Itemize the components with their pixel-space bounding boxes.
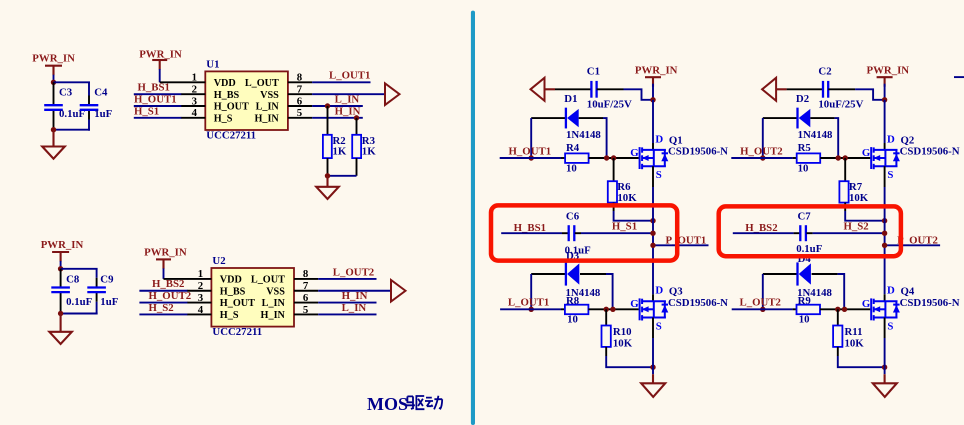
diode D2 (796, 108, 798, 129)
wire (134, 93, 182, 95)
wire (652, 84, 654, 100)
svg-text:VSS: VSS (260, 90, 279, 101)
wire (318, 313, 376, 315)
diode D2 lead (763, 117, 797, 119)
svg-text:Q3: Q3 (669, 286, 683, 298)
svg-text:G: G (862, 147, 871, 159)
power port PWR_IN (U1) bar (152, 59, 167, 61)
svg-text:PWR_IN: PWR_IN (139, 48, 182, 60)
wire (96, 302, 98, 315)
highlight box 1 (491, 205, 677, 260)
svg-text:10K: 10K (849, 192, 869, 204)
capacitor C8 plates (51, 286, 70, 288)
capacitor C4 plates (80, 104, 99, 106)
highlight box 2 (719, 206, 901, 256)
diode D1 (565, 108, 567, 129)
transistor Q3 source arrow (643, 308, 654, 310)
pin 1 lead (164, 278, 212, 280)
transistor Q2 body diode (895, 150, 897, 166)
svg-text:PWR_IN: PWR_IN (867, 65, 910, 77)
transistor Q1 drain link (641, 149, 666, 151)
junction (354, 115, 359, 120)
wire (652, 187, 654, 221)
wire to ground (884, 367, 886, 374)
svg-text:4: 4 (198, 304, 204, 316)
svg-text:10uF/25V: 10uF/25V (587, 99, 632, 111)
junction (51, 80, 56, 85)
wire (884, 187, 886, 221)
svg-text:H_IN: H_IN (254, 113, 279, 124)
wire (134, 105, 182, 107)
wire to ground (652, 367, 654, 374)
transistor Q3 source link (641, 317, 666, 319)
wire (614, 211, 653, 221)
svg-text:D: D (887, 133, 895, 145)
svg-text:C9: C9 (100, 274, 114, 286)
svg-text:UCC27211: UCC27211 (206, 130, 256, 142)
svg-text:H_OUT: H_OUT (220, 298, 255, 309)
wire (134, 117, 182, 119)
stub wire at right edge (954, 76, 964, 78)
resistor R11 bottom lead (837, 347, 839, 356)
transistor Q2 source link (873, 165, 898, 167)
diode D4 (796, 262, 798, 285)
transistor Q4 source arrow (874, 308, 885, 310)
source lead (884, 166, 886, 187)
transistor Q4 body diode (895, 301, 897, 317)
transistor Q3 channel segments (641, 299, 643, 304)
svg-text:L_OUT: L_OUT (251, 275, 285, 286)
resistor R7 body (839, 181, 848, 202)
svg-text:R6: R6 (617, 181, 631, 193)
wire (61, 268, 98, 270)
diode D3 lead (531, 273, 566, 275)
wire (500, 157, 561, 159)
resistor R8 lead (588, 308, 638, 310)
junction (58, 311, 63, 316)
svg-text:R8: R8 (566, 295, 580, 307)
wire (54, 129, 91, 131)
svg-text:G: G (862, 298, 871, 310)
pin 3 lead (187, 302, 212, 304)
junction (835, 307, 840, 312)
svg-text:H_BS1: H_BS1 (514, 222, 546, 234)
svg-text:R10: R10 (613, 326, 632, 338)
pin 2 lead (187, 290, 212, 292)
wire PWR rail (652, 100, 654, 143)
capacitor C9 leads (96, 278, 98, 288)
source lead (652, 318, 654, 339)
wire (884, 84, 886, 100)
pin 5 lead (288, 117, 312, 119)
wire rail (884, 221, 886, 295)
svg-text:10K: 10K (613, 338, 633, 350)
resistor R10 bottom lead (605, 347, 607, 356)
junction (610, 307, 615, 312)
wire (624, 89, 654, 100)
wire (318, 278, 376, 280)
wire (88, 120, 90, 131)
wire (581, 232, 653, 234)
svg-text:G: G (630, 298, 639, 310)
resistor R3 body (352, 135, 361, 158)
source lead (884, 318, 886, 339)
svg-text:H_S2: H_S2 (844, 221, 869, 233)
resistor R2 bottom lead (327, 158, 329, 176)
svg-text:S: S (887, 169, 893, 181)
resistor R7 bottom lead (844, 203, 846, 211)
svg-text:VSS: VSS (266, 286, 285, 297)
wire (312, 81, 370, 83)
junction (51, 127, 56, 132)
transistor Q4 ds bar (884, 301, 886, 317)
svg-text:H_IN: H_IN (342, 290, 368, 302)
resistor R6 body (608, 181, 617, 202)
wire (96, 269, 98, 278)
transistor Q4 gate bar (870, 298, 872, 320)
transistor Q4 source link (873, 317, 898, 319)
svg-text:PWR_IN: PWR_IN (635, 65, 678, 77)
junction (842, 307, 847, 312)
power port PWR_IN (bridge 2) bar (877, 76, 893, 78)
svg-text:U2: U2 (212, 255, 225, 267)
svg-text:Q4: Q4 (901, 286, 915, 298)
junction (650, 231, 655, 236)
svg-text:L_OUT2: L_OUT2 (740, 297, 781, 309)
wire PWR rail (884, 100, 886, 143)
resistor R8 body (565, 305, 589, 315)
wire (88, 82, 90, 95)
transistor Q2 gate bar (870, 147, 872, 169)
drain lead (884, 143, 886, 150)
off-sheet connector (left) (531, 78, 545, 101)
svg-text:D2: D2 (796, 93, 809, 105)
svg-text:1N4148: 1N4148 (798, 129, 833, 141)
wire to ground (52, 130, 54, 147)
svg-text:CSD19506-N: CSD19506-N (668, 297, 728, 309)
wire (530, 274, 532, 309)
svg-text:PWR_IN: PWR_IN (41, 239, 84, 251)
capacitor C7 lead (794, 232, 800, 234)
ground lead (652, 374, 654, 383)
ground (49, 332, 72, 344)
title glyph (CJK) (406, 396, 424, 409)
wire (835, 118, 839, 158)
wire (603, 118, 607, 158)
capacitor C7 plates (799, 225, 801, 241)
svg-text:3: 3 (198, 292, 204, 304)
resistor R2 body (323, 135, 332, 158)
transistor Q1 gate bar (639, 147, 641, 169)
wire (139, 302, 187, 304)
transistor Q3 drain link (641, 300, 666, 302)
op-amp-driver IC U1 body (205, 71, 288, 130)
transistor Q2 source arrow (874, 157, 885, 159)
transistor Q1 ds bar (653, 150, 655, 166)
wire (139, 290, 187, 292)
resistor R2 top lead (327, 106, 329, 135)
resistor R3 bottom lead (356, 158, 358, 176)
transistor Q2 channel segments (873, 147, 875, 152)
svg-text:U1: U1 (206, 59, 219, 71)
svg-text:L_OUT2: L_OUT2 (333, 266, 374, 278)
diode D1 lead (531, 117, 565, 119)
wire (733, 232, 794, 234)
svg-text:PWR_IN: PWR_IN (144, 246, 187, 258)
svg-text:CSD19506-N: CSD19506-N (900, 146, 960, 158)
off-sheet connector (right) (391, 280, 406, 302)
svg-text:R11: R11 (845, 326, 863, 338)
wire (328, 175, 357, 177)
capacitor C3 leads (53, 82, 55, 105)
transistor Q3 gate bar (639, 298, 641, 320)
wire (530, 118, 532, 158)
diode D2 lead (810, 117, 834, 119)
title glyph (CJK) (425, 396, 442, 410)
junction (882, 243, 887, 248)
pin 7 lead (288, 93, 312, 95)
wire (139, 313, 187, 315)
capacitor C6 lead (562, 232, 568, 234)
ground (641, 383, 665, 397)
svg-text:L_OUT1: L_OUT1 (508, 297, 549, 309)
svg-text:H_OUT2: H_OUT2 (740, 145, 783, 157)
wire (60, 261, 62, 267)
svg-text:1: 1 (198, 268, 203, 280)
svg-text:L_OUT1: L_OUT1 (329, 70, 370, 82)
wire (318, 302, 376, 304)
junction (529, 155, 534, 160)
transistor Q2 ds bar (884, 150, 886, 166)
svg-text:10: 10 (567, 314, 578, 326)
svg-text:H_BS2: H_BS2 (152, 278, 184, 290)
svg-text:D: D (655, 285, 663, 297)
junction (611, 155, 616, 160)
capacitor C3 plates (44, 104, 63, 106)
pin 7 lead (294, 290, 318, 292)
wire (731, 157, 792, 159)
svg-text:MOS: MOS (367, 394, 408, 414)
svg-text:2: 2 (198, 280, 203, 292)
svg-text:H_OUT1: H_OUT1 (509, 145, 552, 157)
source lead (652, 166, 654, 187)
svg-text:L_OUT: L_OUT (245, 78, 279, 89)
svg-text:S: S (887, 320, 893, 332)
svg-text:4: 4 (192, 107, 198, 119)
capacitor C7 lead (806, 232, 812, 234)
svg-text:H_BS2: H_BS2 (745, 222, 777, 234)
diode D4 lead (812, 273, 838, 275)
svg-text:H_OUT: H_OUT (214, 102, 249, 113)
resistor R5 lead (793, 157, 797, 159)
wire (732, 308, 793, 310)
svg-text:R7: R7 (849, 181, 863, 193)
svg-text:S: S (656, 169, 662, 181)
off-sheet connector (right) (385, 83, 400, 105)
pin 6 lead (288, 105, 312, 107)
resistor R11 top lead (837, 309, 839, 325)
diode D4 lead (763, 273, 798, 275)
pin 2 lead (181, 93, 206, 95)
svg-text:D: D (887, 285, 895, 297)
svg-text:3: 3 (192, 95, 198, 107)
ground (316, 187, 339, 199)
wire (652, 338, 654, 367)
wire (838, 356, 885, 367)
svg-text:CSD19506-N: CSD19506-N (900, 297, 960, 309)
svg-text:R5: R5 (798, 142, 811, 154)
transistor Q3 ds bar (653, 301, 655, 317)
wire (54, 81, 91, 83)
wire (61, 313, 98, 315)
resistor R9 lead (793, 308, 797, 310)
wire (653, 244, 709, 246)
pin 3 lead (181, 105, 206, 107)
svg-text:H_OUT1: H_OUT1 (134, 93, 177, 105)
resistor R9 lead (820, 308, 870, 310)
resistor R5 lead (820, 157, 870, 159)
transistor Q4 channel segments (873, 299, 875, 304)
pin 1 lead (160, 81, 206, 83)
pin 5 lead (294, 313, 318, 315)
power port PWR_IN (C8/C9 group) bar (52, 251, 69, 253)
wire (597, 88, 624, 90)
wire (606, 274, 613, 309)
svg-text:1K: 1K (333, 146, 347, 158)
power port PWR_IN (bridge 1) bar (645, 76, 661, 78)
resistor R3 top lead (356, 118, 358, 135)
junction (760, 155, 765, 160)
svg-text:C6: C6 (566, 211, 580, 223)
wire (845, 211, 884, 221)
junction (650, 243, 655, 248)
svg-text:1uF: 1uF (94, 108, 112, 120)
resistor R6 bottom lead (613, 203, 615, 211)
wire (838, 274, 845, 309)
svg-text:10K: 10K (845, 338, 865, 350)
drain lead (884, 294, 886, 301)
svg-text:VDD: VDD (220, 275, 242, 286)
wire (762, 118, 764, 158)
svg-text:C3: C3 (59, 87, 73, 99)
svg-text:H_BS: H_BS (220, 286, 246, 297)
svg-text:10uF/25V: 10uF/25V (818, 99, 863, 111)
wire (500, 308, 561, 310)
junction (882, 97, 887, 102)
junction (882, 231, 887, 236)
diode D3 lead (580, 273, 606, 275)
wire (787, 88, 824, 90)
svg-text:H_IN: H_IN (261, 310, 286, 321)
wire to ground (60, 314, 62, 332)
wire (312, 117, 363, 119)
wire (855, 89, 885, 100)
svg-text:G: G (630, 147, 639, 159)
svg-text:R9: R9 (798, 295, 812, 307)
diode D3 (565, 262, 567, 285)
svg-text:H_S: H_S (214, 113, 233, 124)
junction (604, 307, 609, 312)
wire (762, 274, 764, 309)
svg-text:L_IN: L_IN (262, 298, 286, 309)
junction (882, 365, 887, 370)
pin 8 lead (294, 278, 318, 280)
wire (312, 105, 363, 107)
svg-text:H_S1: H_S1 (612, 221, 637, 233)
transistor Q3 body diode (664, 301, 666, 317)
svg-text:C8: C8 (66, 274, 80, 286)
wire to ground (326, 176, 328, 187)
ground (873, 383, 897, 397)
capacitor C2 plates (822, 81, 824, 98)
svg-text:1N4148: 1N4148 (566, 129, 601, 141)
svg-text:D1: D1 (564, 93, 577, 105)
svg-text:S: S (656, 320, 662, 332)
ground lead (884, 374, 886, 383)
wire (555, 88, 592, 90)
svg-text:10: 10 (566, 163, 577, 175)
svg-text:H_BS1: H_BS1 (138, 82, 170, 94)
resistor R8 lead (561, 308, 565, 310)
pin 6 lead (294, 302, 318, 304)
svg-text:1K: 1K (362, 146, 376, 158)
svg-text:H_S: H_S (220, 310, 239, 321)
power port PWR_IN (U2) bar (156, 258, 171, 260)
junction (604, 155, 609, 160)
svg-text:C1: C1 (587, 66, 600, 78)
svg-text:L_IN: L_IN (256, 102, 280, 113)
divider line (471, 11, 475, 425)
wire (606, 356, 653, 367)
junction (650, 218, 655, 223)
transistor Q2 drain link (873, 149, 898, 151)
junction (529, 307, 534, 312)
svg-text:VDD: VDD (214, 78, 236, 89)
capacitor C1 plates (590, 81, 592, 98)
junction (843, 155, 848, 160)
svg-text:10K: 10K (617, 192, 637, 204)
junction (882, 218, 887, 223)
resistor R10 top lead (605, 309, 607, 325)
resistor R11 body (833, 326, 842, 347)
wire (884, 338, 886, 367)
drain lead (652, 294, 654, 301)
wire (828, 88, 855, 90)
wire (885, 244, 941, 246)
resistor R4 body (565, 153, 589, 163)
svg-text:H_S2: H_S2 (149, 302, 174, 314)
resistor R9 body (797, 305, 821, 315)
resistor R4 lead (561, 157, 565, 159)
wire pin7 to connector (318, 290, 391, 292)
svg-text:UCC27211: UCC27211 (212, 326, 262, 338)
svg-text:Q1: Q1 (669, 134, 683, 146)
pin 8 lead (288, 81, 312, 83)
svg-text:H_BS: H_BS (214, 90, 240, 101)
svg-text:L_IN: L_IN (342, 302, 367, 314)
svg-text:C2: C2 (818, 66, 831, 78)
wire (163, 268, 165, 279)
junction (650, 365, 655, 370)
op-amp-driver IC U2 body (211, 268, 294, 327)
junction (325, 173, 330, 178)
transistor Q4 drain link (873, 300, 898, 302)
wire rail (652, 221, 654, 295)
svg-text:10: 10 (798, 163, 809, 175)
wire (501, 232, 562, 234)
svg-text:D: D (655, 133, 663, 145)
svg-text:H_S1: H_S1 (134, 105, 159, 117)
